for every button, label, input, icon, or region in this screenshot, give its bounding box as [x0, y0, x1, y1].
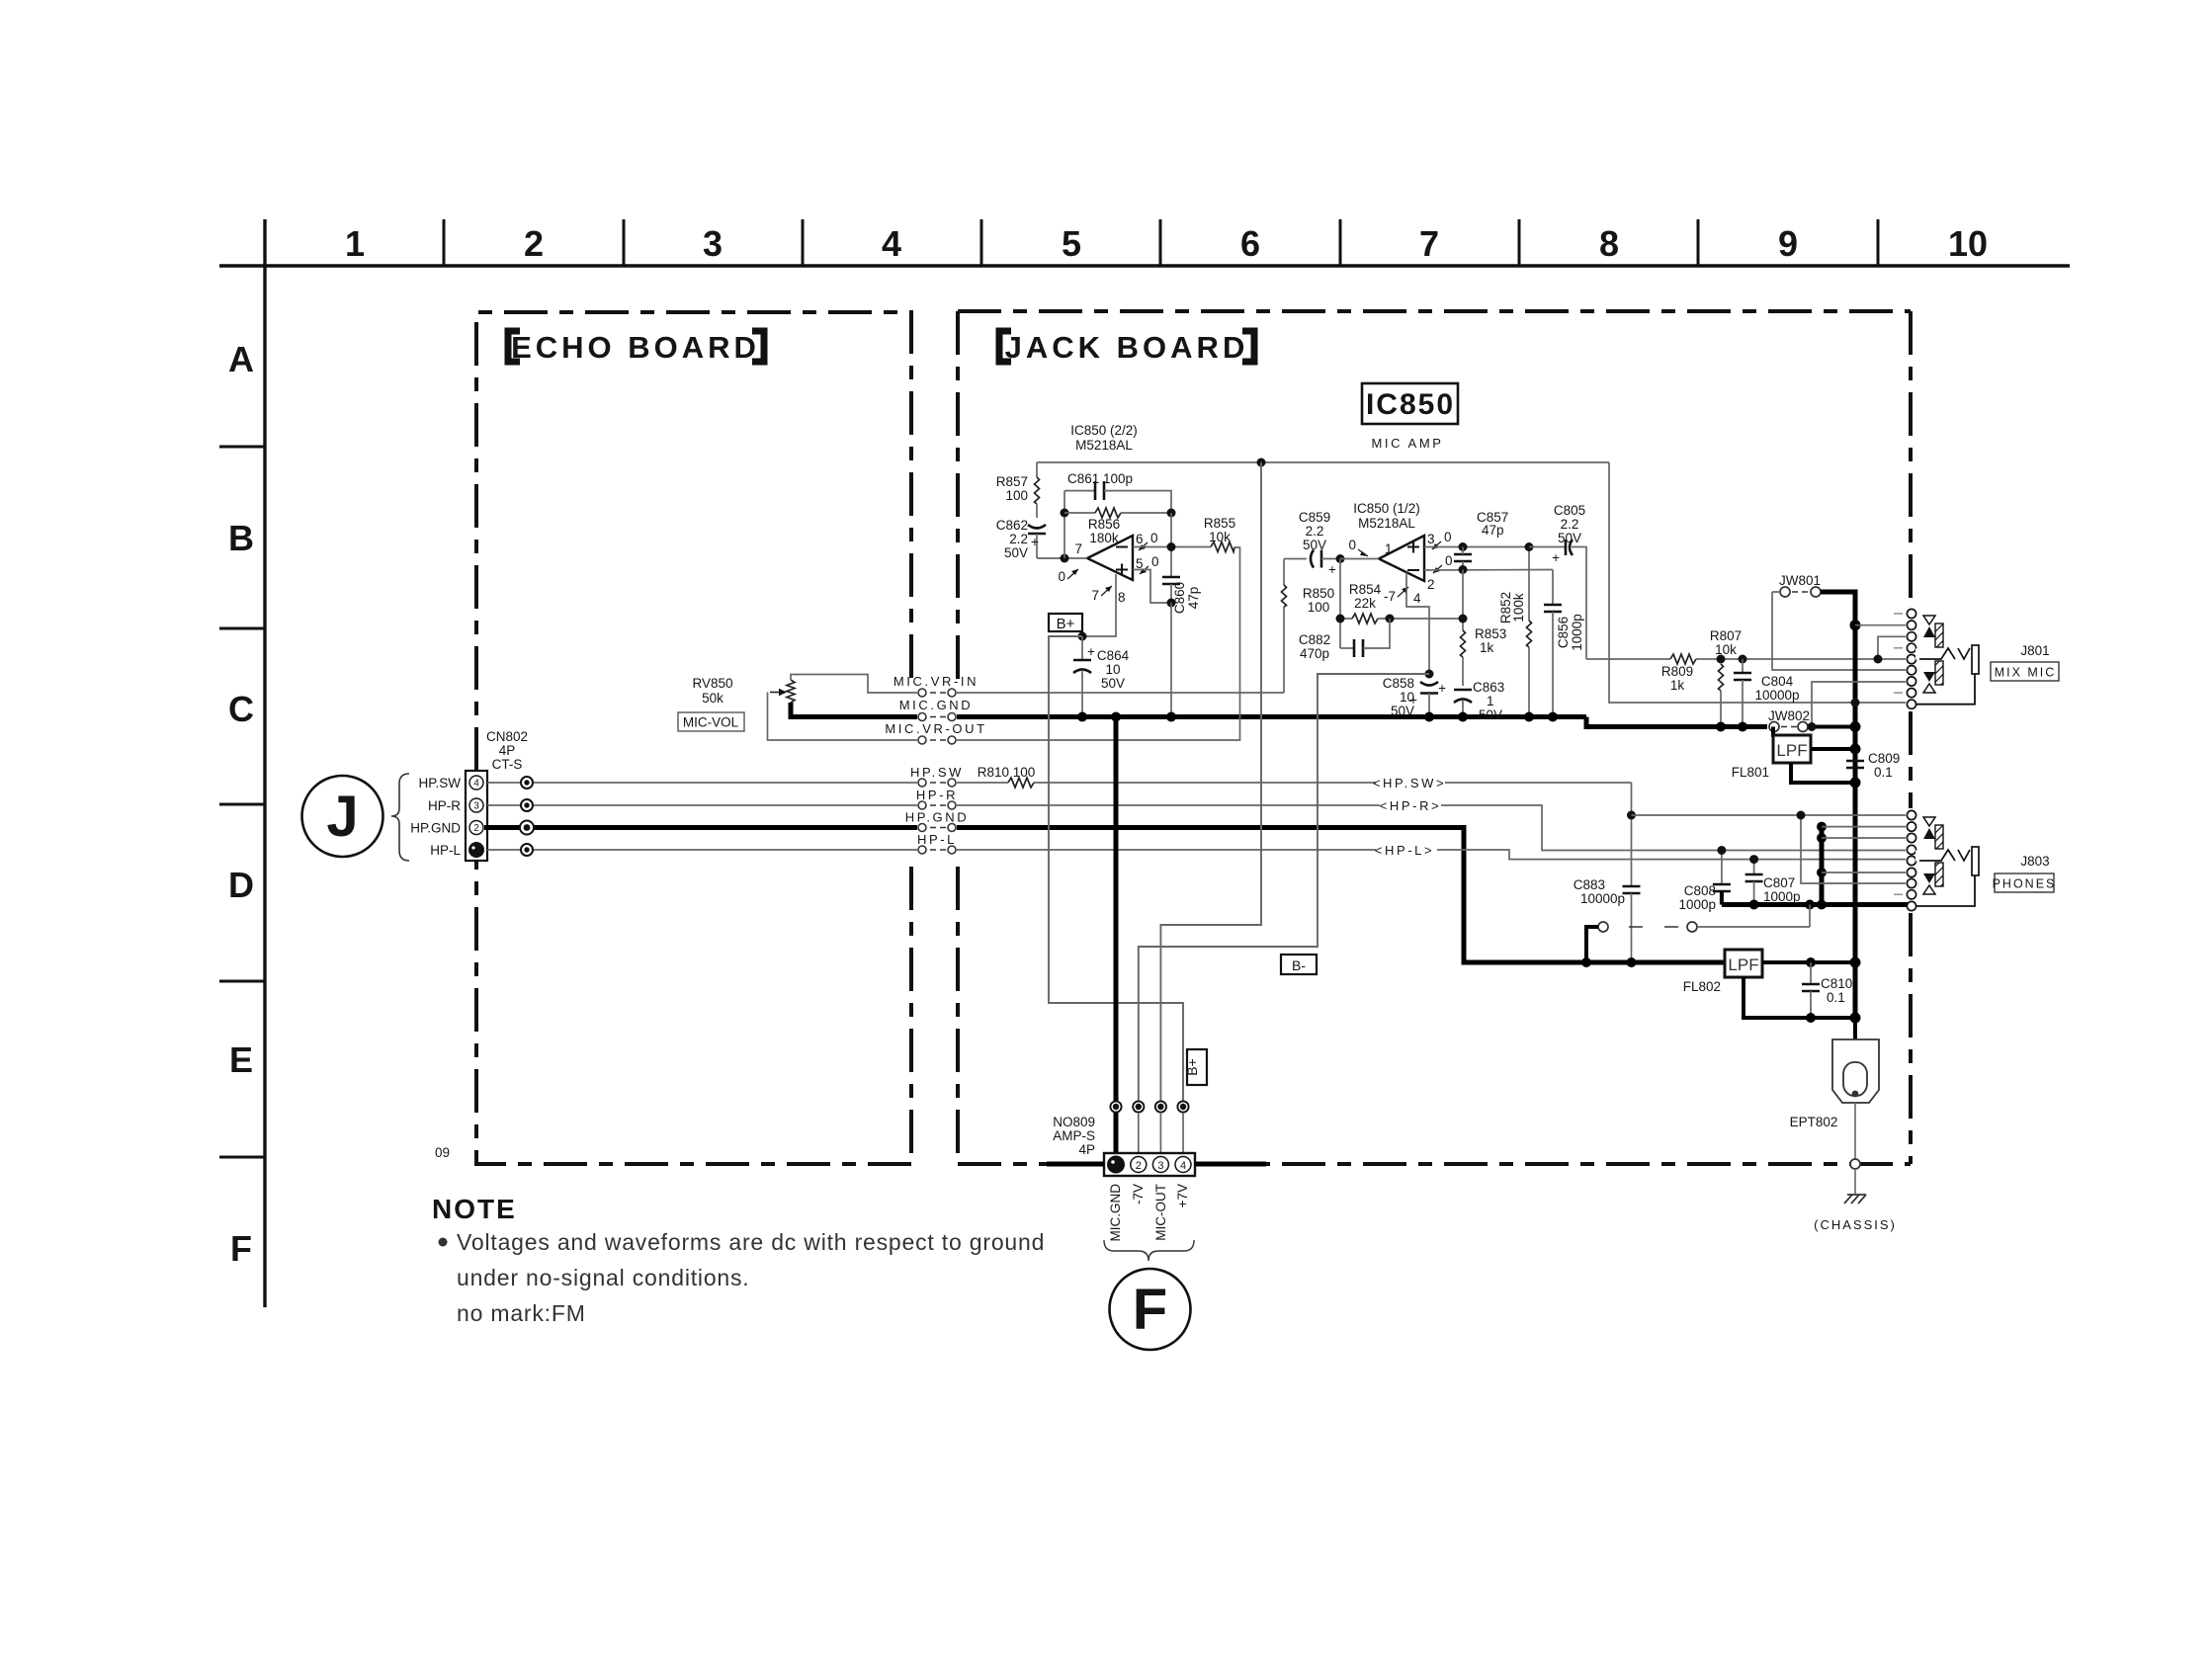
voltage mark 0 at pin6 — [1139, 531, 1158, 550]
svg-text:10k: 10k — [1209, 530, 1231, 544]
svg-text:4P: 4P — [1078, 1142, 1095, 1157]
J803 contact circles — [1907, 810, 1915, 910]
svg-text:C863: C863 — [1473, 680, 1504, 695]
wire feedback left riser — [1063, 491, 1065, 558]
node C883 at FL802 rail — [1627, 957, 1637, 967]
board connector MIC.VR-OUT — [885, 721, 986, 744]
board connector MIC.VR-IN — [893, 674, 978, 697]
node R854 right — [1386, 615, 1395, 623]
node C804 top — [1739, 655, 1747, 664]
microphone EPT802 — [1790, 1039, 1879, 1129]
wire HP.GND row echo side (thick) — [484, 825, 917, 830]
svg-text:C861 100p: C861 100p — [1067, 471, 1133, 486]
svg-text:HP-R: HP-R — [916, 788, 958, 802]
capacitor C857 — [1454, 510, 1508, 570]
J801 body hatched bar — [1935, 623, 1943, 647]
node ring riser contact3 — [1817, 833, 1827, 843]
svg-text:-7: -7 — [1384, 589, 1396, 604]
svg-text:0: 0 — [1058, 569, 1065, 584]
B+ box U1 — [1049, 614, 1082, 632]
node C807 top on HP-L run — [1749, 855, 1758, 864]
resistor R852 — [1498, 547, 1532, 717]
voltage mark 0 at pin5 — [1140, 554, 1159, 574]
svg-text:+: + — [1552, 550, 1560, 565]
node C860 bottom — [1167, 599, 1176, 608]
B- box — [1281, 955, 1317, 974]
resistor R850 — [1282, 559, 1335, 616]
svg-text:3: 3 — [1157, 1160, 1163, 1172]
jumper JW802 — [1768, 708, 1855, 732]
svg-text:(CHASSIS): (CHASSIS) — [1814, 1217, 1897, 1232]
node C805/R852 — [1525, 542, 1534, 551]
svg-text:IC850 (2/2): IC850 (2/2) — [1070, 423, 1138, 438]
svg-text:C883: C883 — [1574, 877, 1605, 892]
node feedback right — [1167, 509, 1176, 518]
svg-text:MIC.VR-OUT: MIC.VR-OUT — [885, 721, 986, 736]
net flag HP-L — [1375, 840, 1437, 860]
node C856 at MIC.GND — [1548, 712, 1558, 722]
wire HP.SW jack side — [957, 782, 1632, 784]
svg-text:2.2: 2.2 — [1561, 517, 1579, 532]
bus vertical (thick) — [1853, 625, 1858, 1018]
svg-text:4: 4 — [473, 779, 479, 789]
J801 contact stubs — [1894, 614, 1903, 693]
svg-text:47p: 47p — [1186, 587, 1201, 610]
node ring riser at sleeve rail — [1817, 900, 1827, 910]
wire bus to mic contact 2 — [1855, 624, 1906, 626]
node C863 at MIC.GND — [1458, 712, 1468, 722]
resistor R810 — [978, 765, 1036, 789]
svg-text:R856: R856 — [1088, 517, 1120, 532]
wire C860 bottom to MIC.GND — [1170, 603, 1172, 717]
wire HP.GND jack side (thick) — [957, 828, 1724, 963]
node contact7 riser top — [1797, 811, 1806, 820]
wire node to apex — [1340, 558, 1379, 560]
wire MIC.GND rail step down — [1586, 717, 1767, 727]
wire wiper row to R809 — [1586, 658, 1670, 660]
capacitor C882 — [1299, 619, 1390, 661]
svg-text:<HP.SW>: <HP.SW> — [1373, 776, 1446, 790]
svg-text:MIC.GND: MIC.GND — [899, 698, 974, 712]
svg-text:R857: R857 — [996, 474, 1028, 489]
pin4 annotation -7 — [1384, 587, 1421, 606]
via NO809 pin2 — [1133, 1101, 1144, 1112]
capacitor C805 — [1529, 503, 1586, 659]
connector CN802 — [466, 729, 528, 861]
via on HP-L — [521, 844, 533, 856]
sleeve rail J803 (thick) — [1722, 902, 1908, 907]
svg-text:R850: R850 — [1303, 586, 1334, 601]
svg-text:6: 6 — [1240, 223, 1260, 264]
svg-text:F: F — [1133, 1278, 1167, 1342]
svg-text:HP-L: HP-L — [917, 832, 957, 847]
svg-text:4: 4 — [1180, 1160, 1186, 1172]
capacitor C864 — [1073, 636, 1130, 717]
capacitor C809 — [1846, 751, 1900, 780]
JACK BOARD outline — [958, 311, 1911, 1164]
wire B+ feed left riser — [1049, 636, 1183, 1107]
wire contact2 stub — [1822, 826, 1906, 828]
svg-text:6: 6 — [1136, 532, 1144, 546]
capacitor C860 — [1162, 577, 1201, 614]
node B- — [1425, 670, 1434, 679]
svg-text:<HP-L>: <HP-L> — [1375, 843, 1434, 858]
wire MIC.VR-OUT jack side — [957, 547, 1240, 740]
wire mic contact 7 drop — [1812, 682, 1906, 727]
svg-text:1k: 1k — [1480, 640, 1494, 655]
svg-text:NOTE: NOTE — [432, 1194, 517, 1224]
svg-text:+: + — [1409, 693, 1417, 707]
wire pins into connector — [1139, 1113, 1183, 1164]
JACK BOARD title — [999, 331, 1254, 362]
node HP.SW branch — [1627, 811, 1636, 820]
ECHO BOARD outline — [476, 312, 911, 1164]
svg-text:2: 2 — [524, 223, 544, 264]
J803 name box PHONES — [1993, 873, 2057, 892]
svg-text:MIC.GND: MIC.GND — [1108, 1184, 1123, 1242]
svg-text:AMP-S: AMP-S — [1053, 1128, 1095, 1143]
via on HP-R — [521, 799, 533, 811]
svg-text:1000p: 1000p — [1570, 614, 1584, 651]
svg-text:C809: C809 — [1868, 751, 1900, 766]
board connector MIC.GND — [899, 698, 974, 721]
J801 wiper zigzag — [1915, 648, 1970, 660]
svg-text:C805: C805 — [1554, 503, 1585, 518]
ring riser (thick) — [1820, 827, 1825, 905]
node C864 at MIC.GND — [1077, 712, 1087, 722]
svg-text:B: B — [228, 518, 254, 558]
potentiometer RV850 — [692, 676, 795, 706]
svg-text:C856: C856 — [1556, 617, 1571, 648]
node bus sleeve row — [1854, 704, 1856, 706]
svg-text:R810 100: R810 100 — [978, 765, 1036, 780]
IC850 label box — [1362, 383, 1458, 424]
board connector HP.GND — [905, 810, 969, 832]
node pin3/C857 — [1459, 542, 1468, 551]
svg-text:470p: 470p — [1300, 646, 1329, 661]
node pin2/C857 — [1459, 565, 1468, 574]
svg-text:2: 2 — [473, 823, 479, 834]
top rail (U1 supply node) — [1037, 461, 1609, 463]
node ring riser contact6 — [1817, 868, 1827, 877]
svg-text:C808: C808 — [1684, 883, 1716, 898]
resistor R857 — [996, 462, 1040, 518]
svg-text:C807: C807 — [1763, 875, 1795, 890]
resistor R854 — [1340, 582, 1463, 623]
svg-text:8: 8 — [1118, 590, 1126, 605]
svg-text:under no-signal conditions.: under no-signal conditions. — [457, 1265, 750, 1290]
svg-text:CN802: CN802 — [486, 729, 528, 744]
svg-text:NO809: NO809 — [1053, 1115, 1095, 1129]
node C804 bottom — [1738, 722, 1747, 732]
svg-text:R855: R855 — [1204, 516, 1235, 531]
node R852 at MIC.GND — [1524, 712, 1534, 722]
svg-text:J: J — [326, 785, 358, 849]
svg-text:MIC AMP: MIC AMP — [1371, 436, 1443, 451]
svg-text:9: 9 — [1778, 223, 1798, 264]
node jog at wiper row — [1874, 655, 1883, 664]
wire MIC.GND to NO809 pin1 (thick) — [1114, 717, 1119, 1165]
J803 plug tip — [1972, 847, 1979, 875]
svg-text:A: A — [228, 339, 254, 379]
node ring riser contact2 — [1817, 822, 1827, 832]
svg-text:50V: 50V — [1479, 707, 1502, 722]
svg-text:8: 8 — [1599, 223, 1619, 264]
wire MIC.GND jack rail (thick) — [957, 714, 1586, 719]
capacitor C859 — [1299, 510, 1340, 577]
svg-text:C859: C859 — [1299, 510, 1330, 525]
wire HP-R jack side — [957, 805, 1906, 851]
svg-text:B+: B+ — [1184, 1058, 1200, 1076]
svg-text:0: 0 — [1444, 530, 1452, 544]
svg-text:1: 1 — [1487, 694, 1494, 708]
LPF FL802 — [1683, 950, 1855, 1018]
svg-text:47p: 47p — [1482, 523, 1504, 538]
svg-text:50V: 50V — [1303, 538, 1326, 552]
node pin1 wire at MIC.GND — [1111, 712, 1121, 722]
wire contact7 riser — [1801, 815, 1906, 883]
svg-text:+: + — [1328, 562, 1336, 577]
svg-text:IC850: IC850 — [1366, 388, 1455, 421]
via on HP.GND — [520, 821, 534, 835]
via NO809 pin3 — [1155, 1101, 1166, 1112]
wire contact6 stub — [1822, 872, 1906, 873]
svg-text:1000p: 1000p — [1763, 889, 1801, 904]
node FL802 out at bus — [1850, 957, 1861, 968]
wire EPT802 to chassis — [1854, 1103, 1856, 1159]
node C860 line at MIC.GND — [1166, 712, 1176, 722]
wire pin5 — [1133, 570, 1171, 604]
wire B- run to NO809 pin2 — [1139, 674, 1429, 1107]
ruler frame — [219, 219, 2070, 1307]
svg-text:D: D — [228, 865, 254, 905]
svg-text:C862: C862 — [996, 518, 1028, 533]
J801 name box MIX MIC — [1991, 662, 2059, 681]
border solid at NO809 — [1047, 1162, 1104, 1167]
voltage mark 0 at U2 input — [1348, 538, 1368, 556]
capacitor C808 — [1678, 851, 1730, 913]
node rail to MIC-OUT branch — [1257, 458, 1266, 467]
node bus at MIC-OUT row — [1851, 699, 1860, 707]
jack J803 — [2020, 854, 2049, 869]
svg-text:HP-R: HP-R — [428, 798, 461, 813]
pin8 annotation 7 — [1091, 586, 1125, 605]
jumper mic select — [1586, 905, 1810, 963]
svg-text:3: 3 — [1427, 532, 1435, 546]
svg-text:E: E — [229, 1039, 253, 1080]
svg-text:2.2: 2.2 — [1306, 524, 1324, 539]
resistor R855 — [1204, 516, 1235, 552]
svg-text:0: 0 — [1150, 531, 1158, 545]
voltage mark 0 at pin7 — [1058, 569, 1078, 584]
wire pin2 row — [1424, 569, 1553, 572]
net flag HP-R — [1380, 795, 1442, 815]
node B+ — [1078, 632, 1087, 641]
board connector HP.SW — [910, 765, 964, 787]
node FL802 gnd at bus — [1850, 1013, 1861, 1024]
via on HP.SW — [521, 777, 533, 789]
svg-text:CT-S: CT-S — [492, 757, 523, 772]
svg-text:1: 1 — [345, 223, 365, 264]
svg-text:F: F — [230, 1228, 252, 1269]
svg-text:M5218AL: M5218AL — [1075, 438, 1133, 453]
capacitor C861 — [1064, 471, 1171, 513]
svg-text:JW801: JW801 — [1779, 573, 1821, 588]
wire pin4 to B- node — [1406, 573, 1429, 675]
svg-text:22k: 22k — [1354, 596, 1376, 611]
brace at F — [1104, 1240, 1194, 1261]
svg-text:100: 100 — [1308, 600, 1330, 615]
svg-text:+: + — [1087, 644, 1095, 659]
voltage mark 0 at pin3 — [1432, 530, 1452, 549]
wire HP-L row echo side — [487, 849, 917, 851]
svg-text:JACK BOARD: JACK BOARD — [1005, 330, 1249, 365]
capacitor C856 — [1544, 570, 1584, 717]
resistor R809 — [1661, 654, 1906, 693]
svg-text:FL801: FL801 — [1732, 765, 1769, 780]
svg-text:HP.SW: HP.SW — [910, 765, 964, 780]
node C810 bottom — [1806, 1013, 1816, 1023]
node FL801 gnd at bus — [1850, 778, 1861, 789]
wire mic contact 3 jog — [1878, 636, 1906, 659]
svg-text:IC850 (1/2): IC850 (1/2) — [1353, 501, 1420, 516]
svg-text:1000p: 1000p — [1678, 897, 1716, 912]
wire pot wiper to MIC.VR-OUT — [768, 693, 918, 741]
svg-text:C882: C882 — [1299, 632, 1330, 647]
node R807 bottom — [1716, 722, 1726, 732]
capacitor C858 — [1383, 676, 1438, 718]
svg-text:MIC.VR-IN: MIC.VR-IN — [893, 674, 978, 689]
J803 body hatched bar — [1935, 825, 1943, 849]
ECHO BOARD title — [508, 331, 764, 362]
svg-text:4: 4 — [882, 223, 901, 264]
svg-text:2: 2 — [1136, 1160, 1142, 1172]
svg-text:2: 2 — [1427, 577, 1435, 592]
svg-text:<HP-R>: <HP-R> — [1380, 798, 1442, 813]
node FL801 out at bus — [1850, 744, 1861, 755]
node F circle — [1110, 1269, 1191, 1350]
svg-text:RV850: RV850 — [692, 676, 732, 691]
svg-text:0.1: 0.1 — [1874, 765, 1893, 780]
board connector HP-L — [917, 832, 957, 854]
svg-text:4: 4 — [1413, 591, 1421, 606]
J801 switch triangles — [1923, 616, 1935, 693]
node U2 input — [1336, 554, 1345, 563]
svg-text:C804: C804 — [1761, 674, 1794, 689]
svg-text:HP.GND: HP.GND — [905, 810, 969, 825]
svg-text:+7V: +7V — [1175, 1184, 1190, 1207]
wire bus to EPT802 — [1853, 1018, 1857, 1039]
wire U1 output to feedback node — [1037, 557, 1087, 559]
node riser 1831 at sleeve rail — [1805, 900, 1815, 910]
capacitor C804 — [1734, 659, 1800, 727]
resistor R807 — [1710, 628, 1742, 727]
capacitor C862 — [996, 518, 1046, 560]
svg-text:50V: 50V — [1101, 676, 1125, 691]
wire JW801 to mic contact row — [1772, 592, 1906, 670]
node chassis pass-through on border — [1850, 1159, 1860, 1169]
J803 wiper zigzag — [1915, 850, 1970, 862]
svg-text:C864: C864 — [1097, 648, 1130, 663]
node U1 output junction — [1061, 554, 1069, 563]
chassis ground — [1844, 1195, 1866, 1204]
J803 switch triangles — [1923, 817, 1935, 894]
svg-text:B-: B- — [1292, 957, 1306, 973]
svg-text:0: 0 — [1151, 554, 1159, 569]
svg-text:J803: J803 — [2020, 854, 2049, 869]
svg-text:Voltages and waveforms are dc: Voltages and waveforms are dc with respe… — [457, 1229, 1045, 1255]
svg-text:09: 09 — [435, 1145, 450, 1160]
svg-text:J801: J801 — [2020, 643, 2049, 658]
svg-text:M5218AL: M5218AL — [1358, 516, 1415, 531]
J803 sleeve hook — [1916, 875, 1975, 906]
svg-text:+: + — [1031, 535, 1039, 549]
svg-text:0: 0 — [1348, 538, 1356, 552]
J801 contact circles — [1907, 609, 1915, 708]
svg-text:1k: 1k — [1670, 678, 1685, 693]
wire HP-L jack side — [957, 850, 1906, 860]
wire pin6 node — [1133, 546, 1211, 548]
wire HP.SW row echo side — [487, 782, 917, 784]
wire rail corner to jack row — [1609, 462, 1906, 703]
capacitor C807 — [1745, 860, 1801, 905]
svg-text:R853: R853 — [1475, 626, 1506, 641]
svg-text:10000p: 10000p — [1580, 891, 1625, 906]
wire MIC-OUT branch — [1160, 462, 1261, 1107]
svg-text:C860: C860 — [1172, 582, 1187, 614]
node pin6 — [1167, 542, 1176, 551]
svg-text:no mark:FM: no mark:FM — [457, 1300, 586, 1326]
svg-text:10000p: 10000p — [1754, 688, 1799, 703]
wire R854 left riser — [1339, 559, 1341, 649]
svg-text:0: 0 — [1445, 553, 1453, 568]
svg-text:3: 3 — [473, 801, 479, 812]
svg-text:HP.SW: HP.SW — [418, 776, 461, 790]
node R854 left — [1336, 615, 1345, 623]
node C858 at MIC.GND — [1424, 712, 1434, 722]
wire HP-R row echo side — [487, 804, 917, 806]
wire pot top to MIC.VR-IN — [791, 675, 917, 694]
op-amp U2 IC850 (1/2) — [1353, 501, 1434, 592]
node FL802 rail left — [1581, 957, 1591, 967]
svg-text:0.1: 0.1 — [1827, 990, 1845, 1005]
svg-text:50k: 50k — [702, 691, 723, 706]
svg-text:MIX MIC: MIX MIC — [1995, 666, 2057, 680]
node JW802 at bus — [1850, 721, 1861, 732]
capacitor C810 — [1802, 962, 1852, 1018]
net flag HP.SW — [1373, 773, 1446, 792]
wire MIC.VR-IN riser to C859 — [1283, 607, 1285, 693]
wire pin8 — [1082, 574, 1116, 636]
via NO809 pin1 — [1110, 1101, 1121, 1112]
node J circle — [302, 776, 383, 857]
resistor R856 — [1064, 508, 1171, 545]
svg-text:7: 7 — [1419, 223, 1439, 264]
svg-text:PHONES: PHONES — [1993, 877, 2057, 891]
node C808 top on HP-R run — [1717, 846, 1726, 855]
svg-text:EPT802: EPT802 — [1790, 1115, 1838, 1129]
svg-text:10: 10 — [1105, 662, 1120, 677]
svg-text:C810: C810 — [1821, 976, 1852, 991]
svg-text:R854: R854 — [1349, 582, 1382, 597]
board connector HP-R — [916, 788, 958, 809]
svg-text:7: 7 — [1091, 588, 1099, 603]
svg-text:HP-L: HP-L — [430, 843, 461, 858]
capacitor C883 — [1574, 783, 1641, 962]
svg-text:2.2: 2.2 — [1009, 532, 1028, 546]
node R854 right to pin2 riser — [1462, 570, 1464, 631]
J801 sleeve hook — [1916, 674, 1975, 705]
